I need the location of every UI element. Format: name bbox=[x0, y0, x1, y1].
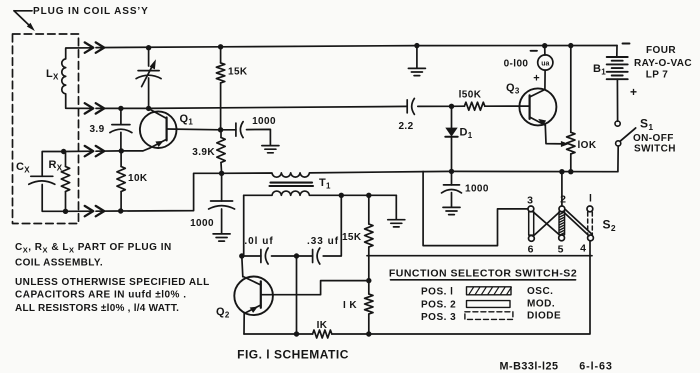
drawing number M-B331-125 6-1-63 bbox=[499, 361, 612, 373]
svg-text:lOK: lOK bbox=[578, 140, 597, 151]
junction: bottom rail / .01-.33 node bbox=[294, 331, 299, 336]
svg-text:.33 uf: .33 uf bbox=[307, 236, 339, 247]
plug connector arrows row 1 bbox=[85, 42, 105, 52]
battery B1 cells bbox=[607, 46, 628, 122]
wire: branch down to S2 terminal 3 bbox=[423, 172, 528, 246]
svg-text:15K: 15K bbox=[342, 232, 362, 243]
dashed enclosure: plug-in coil assembly bbox=[13, 34, 79, 224]
potentiometer 10K bbox=[567, 46, 575, 172]
label 10K bbox=[128, 173, 148, 184]
S2 diagonal 3-5 bbox=[533, 211, 561, 235]
junction: varcap top bbox=[146, 45, 151, 50]
resistor 15K (feedback divider top) bbox=[365, 195, 373, 280]
junction: row3/10K bbox=[119, 148, 124, 153]
svg-text:ua: ua bbox=[541, 60, 549, 67]
label 1000 bbox=[252, 116, 276, 127]
junction: top rail / pot bbox=[568, 43, 573, 48]
capacitor 1000 (detector filter) bbox=[442, 171, 462, 207]
wire: bottom rail (Q2 emitter) bbox=[244, 333, 313, 335]
junction: D1 cathode / rail bbox=[449, 169, 454, 174]
plug connector arrows row 2 bbox=[85, 103, 105, 113]
wire: bottom rail continues to S2 terminal 4 bbox=[332, 240, 590, 334]
diode D1 bbox=[445, 106, 457, 171]
svg-text:10K: 10K bbox=[128, 173, 148, 184]
transformer T1 bbox=[222, 172, 424, 196]
junction: top rail / meter bbox=[542, 43, 547, 48]
resistor 1K (horizontal, emitter) bbox=[313, 330, 332, 338]
S2 rotor bar pos.2 (3-6 open) bbox=[529, 212, 534, 236]
S2 rotor bar pos.3 (1-4 dashed) bbox=[588, 212, 593, 235]
transistor Q3 (NPN) bbox=[519, 88, 556, 126]
junction: 3.9 cap top bbox=[118, 106, 123, 111]
svg-text:ON-OFF: ON-OFF bbox=[633, 133, 674, 144]
inductor Lx (plug-in coil) bbox=[62, 48, 66, 108]
label 150K bbox=[459, 90, 482, 101]
svg-text:CX, RX & LX PART OF PLUG I: CX, RX & LX PART OF PLUG IN bbox=[15, 242, 172, 255]
label 15K bbox=[342, 232, 362, 243]
label B1 bbox=[593, 63, 606, 77]
svg-text:ALL RESISTORS ±l0% , l/4 WATT.: ALL RESISTORS ±l0% , l/4 WATT. bbox=[15, 303, 179, 314]
switch S2 terminals bbox=[528, 206, 593, 241]
junction: between .01 and .33 bbox=[294, 253, 299, 258]
wire: plug row 2 (to Q1 collector / 2.2 cap) bbox=[66, 106, 407, 108]
svg-text:S1: S1 bbox=[640, 117, 653, 133]
ground (top rail) bbox=[408, 46, 425, 76]
wire: plug row 1 (top rail) bbox=[66, 46, 617, 49]
wire: mid rail (T1 top to S1) bbox=[423, 170, 617, 172]
svg-text:0-l00: 0-l00 bbox=[504, 58, 529, 69]
label 1K bbox=[317, 320, 328, 331]
plug connector arrows row 3 bbox=[85, 146, 105, 156]
plug connector arrows row 4 bbox=[85, 206, 105, 216]
capacitor .01uf bbox=[242, 248, 297, 264]
label 1000 bbox=[190, 218, 214, 229]
svg-text:4: 4 bbox=[580, 243, 586, 255]
svg-text:UNLESS OTHERWISE SPECIFIED: UNLESS OTHERWISE SPECIFIED ALL bbox=[15, 277, 210, 288]
variable capacitor (tuning) bbox=[136, 48, 161, 109]
junction: Rx bottom bbox=[63, 209, 68, 214]
wire: S2 terminal 2 up to rail bbox=[561, 172, 563, 207]
svg-text:6-l-63: 6-l-63 bbox=[579, 361, 613, 373]
label T1 bbox=[319, 177, 331, 191]
svg-text:l: l bbox=[589, 193, 592, 205]
svg-text:MOD.: MOD. bbox=[527, 299, 555, 310]
svg-text:POS. l: POS. l bbox=[421, 286, 453, 297]
junction: top rail / 15K bbox=[218, 44, 223, 49]
resistor 1K (divider bottom) bbox=[365, 281, 373, 334]
svg-text:CX: CX bbox=[16, 161, 30, 175]
label D1 bbox=[460, 127, 473, 141]
svg-text:Q2: Q2 bbox=[216, 306, 230, 320]
svg-text:Q3: Q3 bbox=[506, 82, 520, 96]
table row POS.1 OSC bbox=[421, 286, 553, 297]
svg-text:D1: D1 bbox=[460, 127, 473, 141]
svg-text:I K: I K bbox=[343, 300, 357, 311]
svg-text:OSC.: OSC. bbox=[527, 286, 553, 297]
label Rx bbox=[49, 159, 63, 173]
label 10K (pot) bbox=[578, 140, 597, 151]
svg-text:POS. 2: POS. 2 bbox=[421, 300, 456, 311]
svg-text:l50K: l50K bbox=[459, 90, 482, 101]
svg-text:CAPACITORS ARE IN uufd ±l0%: CAPACITORS ARE IN uufd ±l0% . bbox=[15, 289, 186, 300]
svg-text:3: 3 bbox=[527, 195, 533, 207]
ground (below 1000 cap) bbox=[213, 234, 230, 241]
svg-text:S2: S2 bbox=[603, 218, 616, 234]
svg-text:T1: T1 bbox=[319, 177, 331, 191]
label Cx bbox=[16, 161, 30, 175]
battery plus bbox=[630, 85, 637, 99]
junction: rail / S2-2 bbox=[559, 169, 564, 174]
svg-text:POS. 3: POS. 3 bbox=[421, 312, 456, 323]
wire: mid vertical from caps node to bottom rail bbox=[296, 256, 298, 334]
resistor 10K (emitter bias) bbox=[117, 151, 125, 211]
resistor 3.9K bbox=[217, 130, 225, 174]
label 15K bbox=[228, 67, 248, 78]
notes: tolerance bbox=[15, 277, 210, 314]
label 3.9 bbox=[89, 124, 104, 135]
label Q2 bbox=[216, 306, 230, 320]
label 1K bbox=[343, 300, 357, 311]
svg-text:+: + bbox=[630, 85, 637, 99]
svg-text:1000: 1000 bbox=[190, 218, 214, 229]
table row POS.3 DIODE bbox=[421, 310, 561, 323]
junction: rail / pot bottom bbox=[568, 169, 573, 174]
svg-text:M-B33l-l25: M-B33l-l25 bbox=[499, 361, 558, 373]
svg-text:RX: RX bbox=[49, 159, 63, 173]
function selector table top border bbox=[367, 255, 592, 257]
svg-text:RAY-O-VAC: RAY-O-VAC bbox=[634, 58, 692, 69]
junction: top rail ground bbox=[414, 43, 419, 48]
S2 double link 2-4 bbox=[563, 210, 592, 236]
label: PLUG IN COIL ASS'Y with pointer arrow bbox=[14, 6, 149, 31]
junction: bottom rail / 1K bbox=[366, 331, 371, 336]
switch S1 on-off bbox=[615, 121, 636, 172]
svg-text:PLUG IN COIL ASS’Y: PLUG IN COIL ASS’Y bbox=[33, 6, 149, 17]
svg-text:1000: 1000 bbox=[465, 184, 489, 195]
S2 rotor bar pos.1 (2-5 hatched) bbox=[559, 212, 565, 236]
svg-text:FIG. l SCHEMATIC: FIG. l SCHEMATIC bbox=[237, 348, 349, 362]
table title FUNCTION SELECTOR SWITCH-S2 bbox=[389, 267, 577, 280]
table row POS.2 MOD bbox=[421, 299, 555, 311]
wire: Q3 emitter to pot wiper bbox=[545, 125, 569, 147]
notes: Cx Rx Lx part of plug in coil assembly bbox=[15, 242, 172, 269]
transistor Q1 (PNP) bbox=[140, 109, 221, 151]
svg-text:.0l uf: .0l uf bbox=[244, 236, 273, 247]
junction: varcap bottom / Q1 collector node bbox=[146, 106, 151, 111]
svg-text:LX: LX bbox=[46, 68, 59, 82]
transistor Q2 (PNP) bbox=[234, 256, 368, 334]
label .01uf bbox=[244, 236, 273, 247]
svg-text:FUNCTION SELECTOR SWITCH-S2: FUNCTION SELECTOR SWITCH-S2 bbox=[389, 267, 577, 279]
junction: Q1 base node bbox=[218, 127, 223, 132]
svg-text:Q1: Q1 bbox=[180, 113, 194, 127]
ground (detector filter) bbox=[443, 207, 460, 214]
label 3.9K bbox=[192, 147, 215, 158]
svg-text:3.9K: 3.9K bbox=[192, 147, 215, 158]
resistor 150K bbox=[452, 102, 530, 110]
label .33uf bbox=[307, 236, 339, 247]
label Q1 bbox=[180, 113, 194, 127]
wire: plug row 3 (Q1 emitter row) bbox=[64, 150, 143, 153]
resistor Rx bbox=[61, 152, 69, 212]
capacitor Cx bbox=[29, 152, 66, 212]
S2 terminal numbers bbox=[527, 193, 592, 256]
S2 diagonal 2-6 bbox=[533, 211, 560, 236]
svg-text:5: 5 bbox=[558, 244, 564, 256]
svg-text:DIODE: DIODE bbox=[527, 310, 561, 321]
meter 0-100 ua bbox=[504, 46, 553, 90]
label Lx bbox=[46, 68, 59, 82]
ground (T1 secondary right) bbox=[388, 195, 405, 227]
capacitor 3.9 bbox=[110, 108, 132, 150]
resistor 15K (Q1 collector load) bbox=[216, 47, 224, 130]
junction: divider node (Q2 base) bbox=[366, 278, 371, 283]
battery minus bbox=[623, 43, 630, 45]
junction: Rx top bbox=[61, 149, 66, 154]
ground (Q1 base bypass) bbox=[262, 146, 279, 153]
wire: T1 secondary left down to Q2 collector node bbox=[242, 195, 244, 256]
svg-text:15K: 15K bbox=[228, 67, 248, 78]
junction: Q2 collector / .01uf bbox=[239, 253, 244, 258]
svg-text:B1: B1 bbox=[593, 63, 606, 77]
capacitor .33uf bbox=[297, 195, 342, 264]
junction: row4/10K bbox=[118, 208, 123, 213]
svg-text:3.9: 3.9 bbox=[89, 124, 104, 135]
capacitor 1000 (Q1 base bypass) bbox=[221, 122, 271, 146]
label S2 bbox=[603, 218, 616, 234]
svg-text:6: 6 bbox=[528, 244, 534, 256]
svg-text:2: 2 bbox=[560, 194, 566, 206]
wire: plug row 4 (bottom of plug assy) bbox=[66, 173, 222, 211]
junction: .33uf top on secondary bbox=[339, 193, 344, 198]
label 1000 bbox=[465, 184, 489, 195]
svg-text:+: + bbox=[533, 73, 539, 85]
svg-text:LP 7: LP 7 bbox=[646, 70, 669, 81]
svg-text:2.2: 2.2 bbox=[398, 121, 413, 132]
capacitor 2.2 (coupling) bbox=[407, 98, 451, 114]
junction: 3.9K bottom / T1 primary node bbox=[219, 171, 224, 176]
junction: D1 anode node bbox=[449, 104, 454, 109]
junction: 15K top on secondary bbox=[366, 193, 371, 198]
caption FIG.1 SCHEMATIC bbox=[237, 348, 349, 362]
svg-text:FOUR: FOUR bbox=[646, 45, 676, 56]
label FOUR RAY-O-VAC LP 7 bbox=[634, 45, 692, 81]
label Q3 bbox=[506, 82, 520, 96]
label 2.2 bbox=[398, 121, 413, 132]
svg-text:SWITCH: SWITCH bbox=[634, 144, 676, 155]
capacitor 1000 (emitter bypass, lower left) bbox=[209, 173, 235, 233]
svg-text:IK: IK bbox=[317, 320, 328, 331]
label ON-OFF SWITCH bbox=[633, 133, 676, 155]
label S1 bbox=[640, 117, 653, 133]
svg-text:1000: 1000 bbox=[252, 116, 276, 127]
svg-text:COIL ASSEMBLY.: COIL ASSEMBLY. bbox=[15, 258, 103, 269]
